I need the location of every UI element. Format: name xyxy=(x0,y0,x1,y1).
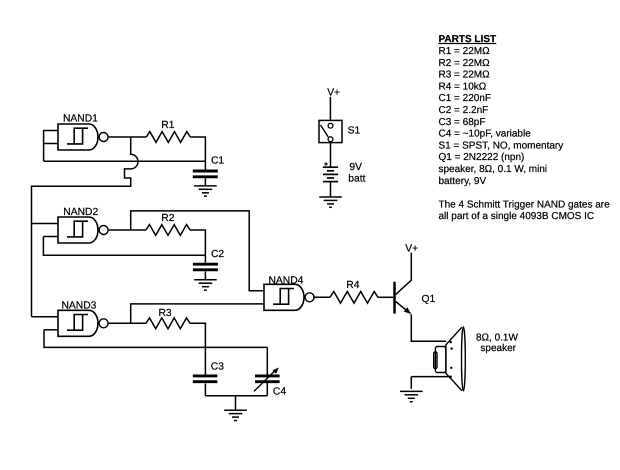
svg-text:C4 = ~10pF, variable: C4 = ~10pF, variable xyxy=(439,129,532,140)
svg-text:NAND1: NAND1 xyxy=(63,114,98,125)
svg-text:R4 = 10kΩ: R4 = 10kΩ xyxy=(439,81,487,92)
svg-text:C1: C1 xyxy=(211,156,224,167)
svg-text:R2 = 22MΩ: R2 = 22MΩ xyxy=(439,58,491,69)
svg-text:S1: S1 xyxy=(348,126,361,137)
svg-text:8Ω, 0.1W: 8Ω, 0.1W xyxy=(476,332,518,343)
svg-text:C3 = 68pF: C3 = 68pF xyxy=(439,117,486,128)
svg-text:C4: C4 xyxy=(273,387,286,398)
svg-text:V+: V+ xyxy=(327,88,340,99)
svg-text:NAND2: NAND2 xyxy=(63,207,98,218)
svg-text:batt: batt xyxy=(348,174,365,185)
svg-text:NAND4: NAND4 xyxy=(269,275,304,286)
svg-text:battery, 9V: battery, 9V xyxy=(439,176,487,187)
svg-text:C3: C3 xyxy=(211,362,224,373)
svg-text:V+: V+ xyxy=(405,244,418,255)
svg-text:NAND3: NAND3 xyxy=(62,300,97,311)
svg-text:R3 = 22MΩ: R3 = 22MΩ xyxy=(439,70,491,81)
svg-text:The 4 Schmitt Trigger NAND gat: The 4 Schmitt Trigger NAND gates are xyxy=(439,199,611,210)
svg-text:Q1 = 2N2222 (npn): Q1 = 2N2222 (npn) xyxy=(439,152,525,163)
svg-text:R2: R2 xyxy=(161,213,174,224)
svg-text:R4: R4 xyxy=(346,280,359,291)
svg-text:C2 = 2.2nF: C2 = 2.2nF xyxy=(439,105,489,116)
svg-text:S1 = SPST, NO, momentary: S1 = SPST, NO, momentary xyxy=(439,140,564,151)
svg-text:R1: R1 xyxy=(161,120,174,131)
svg-text:9V: 9V xyxy=(349,162,362,173)
svg-text:speaker, 8Ω, 0.1 W, mini: speaker, 8Ω, 0.1 W, mini xyxy=(439,164,548,175)
svg-text:Q1: Q1 xyxy=(422,294,436,305)
svg-text:R1 = 22MΩ: R1 = 22MΩ xyxy=(439,46,491,57)
svg-text:C2: C2 xyxy=(211,249,224,260)
svg-text:C1 = 220nF: C1 = 220nF xyxy=(439,93,492,104)
svg-text:PARTS LIST: PARTS LIST xyxy=(439,34,497,45)
svg-text:R3: R3 xyxy=(159,308,172,319)
svg-text:speaker: speaker xyxy=(480,343,516,354)
svg-text:all part of a single 4093B CMO: all part of a single 4093B CMOS IC xyxy=(439,211,595,222)
